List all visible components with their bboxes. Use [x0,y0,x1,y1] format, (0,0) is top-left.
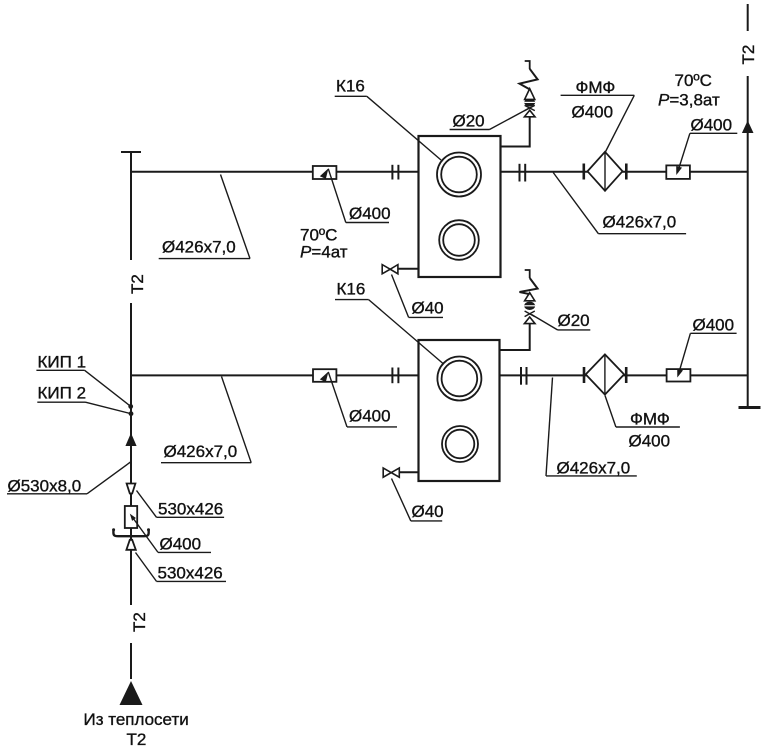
svg-text:К16: К16 [337,280,366,299]
drain valve Ø40 #2 stub [399,471,418,473]
wire top pipe mid [336,171,419,173]
flow arrow on left riser (filled) [125,433,136,446]
wire right riser top segment [747,4,749,31]
pipe break marks bottom-left [391,368,393,384]
svg-text:Ø530х8,0: Ø530х8,0 [8,477,82,496]
safety valve SV2 top tick [525,270,530,278]
drain valve Ø40 #1 stub [398,268,419,270]
svg-text:Ø40: Ø40 [412,502,444,521]
safety valve SV2 cone [525,293,535,301]
safety valve SV1 cross [525,105,535,110]
svg-text:530х426: 530х426 [158,564,223,583]
svg-text:Ø400: Ø400 [691,116,733,135]
node КИП 1 junction dot [128,404,133,409]
svg-text:Т2: Т2 [127,730,147,749]
svg-text:Ø20: Ø20 [558,311,590,330]
safety valve SV1 stub [500,117,530,147]
wire left riser segment B2 [130,494,132,507]
heater unit K16 #1 [419,136,501,277]
svg-text:Т2: Т2 [739,45,758,65]
safety valve SV2 body (filled lens) [524,302,535,310]
wire right riser bottom tick [739,406,761,409]
svg-text:Из теплосети: Из теплосети [84,710,189,729]
svg-text:Ø426х7,0: Ø426х7,0 [164,442,238,461]
reducer 530x426 lower [126,540,135,550]
svg-text:70ºС: 70ºС [675,71,712,90]
filter ФМФ #1 flange left [582,164,585,180]
valve Ø400 bottom-left [313,369,336,382]
svg-text:Р=4ат: Р=4ат [300,243,348,262]
svg-text:Ø20: Ø20 [453,112,485,131]
filter ФМФ #2 diamond [586,354,624,394]
svg-text:Ø40: Ø40 [412,299,444,318]
wire left riser segment B3 [130,528,132,540]
svg-text:КИП 1: КИП 1 [38,353,87,372]
svg-text:Ø426х7,0: Ø426х7,0 [557,459,631,478]
valve Ø400 top-right [666,165,690,179]
safety valve SV1 body (filled lens) [524,98,535,106]
svg-text:Р=3,8ат: Р=3,8ат [658,91,720,110]
safety valve SV2 arrow [524,317,535,324]
heater unit K16 #2 [419,340,500,481]
wire left riser segment A [130,152,132,260]
safety valve SV2 spring zigzag [520,278,538,294]
safety valve SV1 arrow [524,110,535,117]
filter ФМФ #1 diamond [588,152,623,191]
safety valve SV1 spring zigzag [520,69,538,90]
svg-text:530х426: 530х426 [158,500,223,519]
safety valve SV2 cross [525,311,535,317]
svg-text:Ø400: Ø400 [349,407,391,426]
reducer 530x426 upper [127,484,136,494]
pipe break marks bottom-right [520,367,522,385]
valve Ø400 bottom-right [667,369,691,381]
pipe saddle bracket [113,530,148,537]
svg-text:ФМФ: ФМФ [630,410,670,429]
node КИП 2 junction dot [129,411,134,416]
pipe break marks top-right [519,164,521,182]
svg-text:КИП 2: КИП 2 [38,384,87,403]
wire left riser segment C [130,550,132,606]
valve Ø400 top-left [313,166,337,179]
wire top pipe left [131,171,314,173]
pipe break marks top-left [391,165,393,180]
wire left riser segment D [130,643,132,679]
svg-text:Т2: Т2 [128,274,147,294]
wire bottom pipe right [500,374,749,376]
wire left riser segment B [130,303,132,484]
svg-text:Ø400: Ø400 [160,535,202,554]
wire left riser top tick [121,151,141,153]
filter ФМФ #1 flange right [625,164,628,180]
flow arrow on right riser (filled) [742,121,754,134]
flow arrow from heat network (filled) [120,681,143,705]
svg-text:ФМФ: ФМФ [576,78,616,97]
filter ФМФ #2 flange right [625,367,628,383]
valve V1 Ø400 on riser [125,506,137,528]
svg-text:Ø400: Ø400 [629,432,671,451]
drain valve Ø40 #1 bowtie [382,265,390,274]
safety valve SV1 top tick [525,61,530,69]
filter ФМФ #2 flange left [583,367,586,383]
wire right riser main [747,76,749,407]
svg-text:К16: К16 [336,77,365,96]
svg-text:Ø400: Ø400 [572,103,614,122]
svg-text:Ø426х7,0: Ø426х7,0 [162,238,236,257]
safety valve SV1 cone [525,89,535,100]
svg-text:Ø400: Ø400 [693,316,735,335]
drain valve Ø40 #2 bowtie [383,468,391,477]
wire bottom pipe mid [336,374,419,376]
svg-text:Ø426х7,0: Ø426х7,0 [603,213,677,232]
wire top pipe right [500,171,748,173]
wire bottom pipe left [131,374,314,376]
svg-text:Т2: Т2 [130,612,149,632]
safety valve SV2 stub [500,323,530,350]
svg-text:Ø400: Ø400 [349,204,391,223]
